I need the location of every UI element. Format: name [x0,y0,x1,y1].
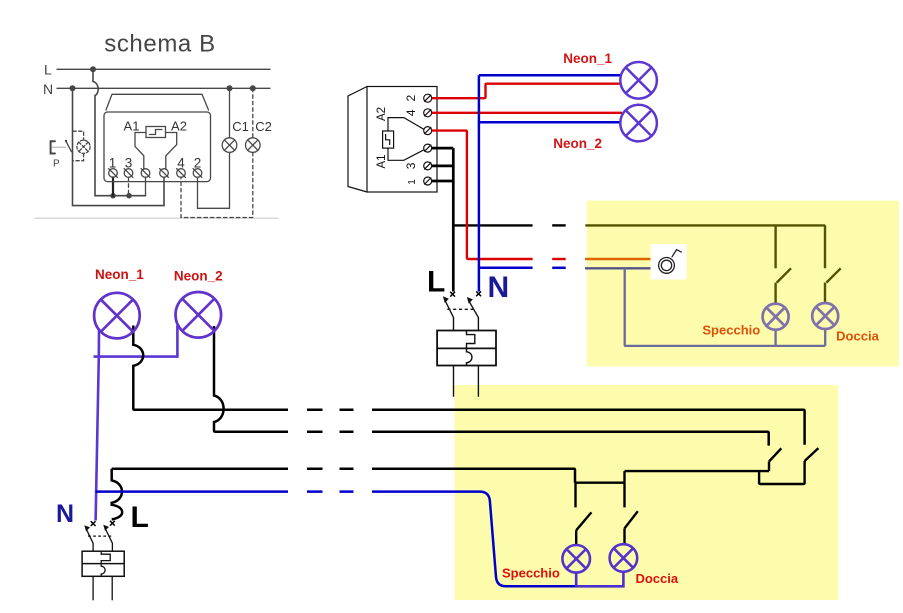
svg-text:Doccia: Doccia [635,571,678,586]
svg-text:Specchio: Specchio [502,565,560,580]
svg-text:3: 3 [404,162,418,169]
svg-text:2: 2 [194,156,202,171]
svg-text:4: 4 [177,156,185,171]
svg-text:schema B: schema B [104,31,216,58]
svg-text:Neon_1: Neon_1 [563,51,612,66]
svg-text:A2: A2 [171,119,187,134]
svg-text:4: 4 [404,109,418,116]
svg-text:Neon_2: Neon_2 [553,136,602,151]
svg-text:Doccia: Doccia [836,329,879,344]
svg-text:1: 1 [407,179,418,185]
svg-text:C1: C1 [232,119,249,134]
svg-text:L: L [427,266,445,299]
svg-text:N: N [488,271,510,304]
svg-text:Neon_1: Neon_1 [95,267,144,282]
svg-text:N: N [56,500,74,528]
svg-text:Specchio: Specchio [702,323,760,338]
svg-text:3: 3 [125,156,133,171]
svg-text:L: L [44,62,52,78]
svg-text:A1: A1 [124,119,140,134]
svg-text:L: L [131,501,149,534]
svg-text:2: 2 [404,95,418,102]
svg-text:Neon_2: Neon_2 [174,269,223,284]
svg-text:P: P [53,159,60,170]
svg-text:A2: A2 [376,107,388,121]
svg-text:C2: C2 [255,119,272,134]
svg-text:1: 1 [109,156,117,171]
svg-text:N: N [43,81,53,97]
svg-text:A1: A1 [376,154,388,168]
